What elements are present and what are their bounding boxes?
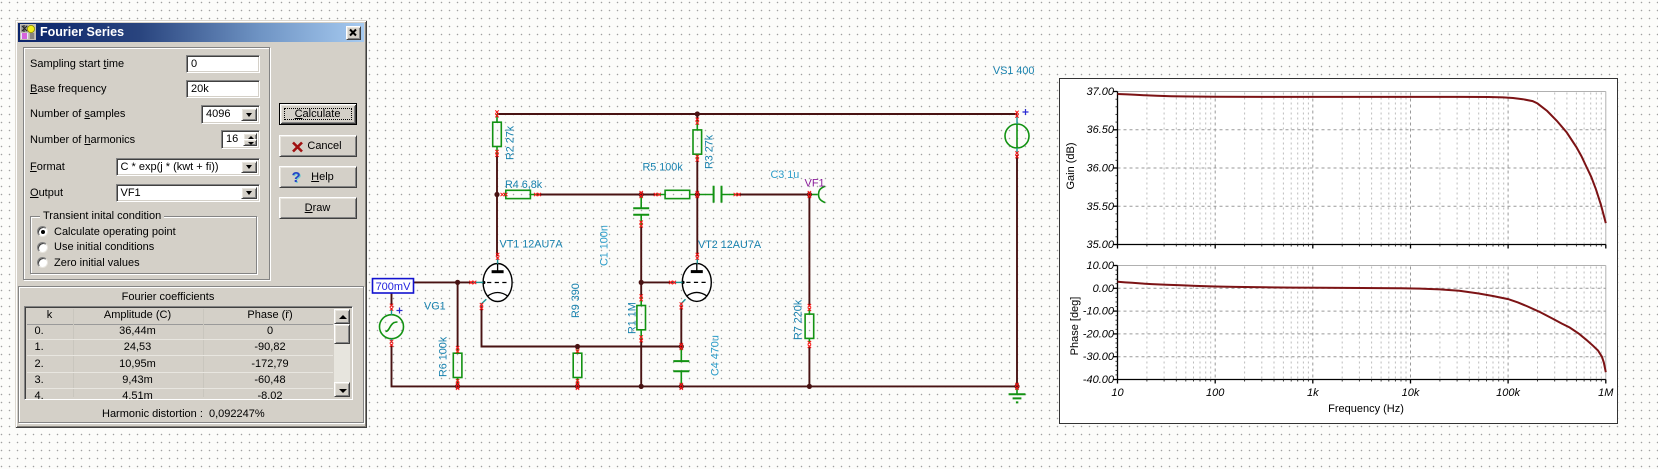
gain plot grid (1114, 92, 1606, 249)
svg-text:10: 10 (1111, 387, 1124, 399)
resistor R1 1M (627, 294, 646, 342)
svg-text:37.00: 37.00 (1086, 86, 1114, 98)
node D junction (VG1/R6/VT1 grid) (455, 280, 460, 285)
wire VT2 anode to node C (696, 195, 698, 257)
resistor R6 100k (438, 336, 462, 386)
wire node VF1 through R7 to rail (808, 195, 810, 387)
svg-text:R2 27k: R2 27k (505, 125, 517, 160)
svg-text:100: 100 (1206, 387, 1225, 399)
vacuum tube VT1 12AU7A (469, 239, 563, 311)
svg-text:R3 27k: R3 27k (704, 134, 716, 169)
wire node B to R5 (641, 194, 657, 196)
voltage generator VG1 (380, 301, 446, 347)
svg-text:VT2 12AU7A: VT2 12AU7A (698, 239, 762, 251)
svg-text:1M: 1M (1598, 387, 1614, 399)
svg-text:R1 1M: R1 1M (627, 302, 639, 334)
wire node A to VT1 anode (496, 195, 498, 257)
gain curve (1118, 94, 1606, 223)
x axis labels (1111, 387, 1614, 415)
wire VS1 bottom to ground (1016, 155, 1018, 386)
svg-text:35.00: 35.00 (1086, 239, 1114, 251)
capacitor C1 100n (599, 195, 650, 267)
wire VG1 to VT1 grid (392, 282, 473, 306)
capacitor C4 470u (673, 335, 721, 386)
wire R4 to node B (538, 194, 642, 196)
resistor R2 27k (493, 110, 517, 160)
svg-text:R9 390: R9 390 (570, 283, 582, 318)
wire node F to VT2 grid (641, 281, 672, 283)
svg-text:1k: 1k (1307, 387, 1319, 399)
svg-text:R7 220k: R7 220k (793, 299, 805, 340)
capacitor C3 1u (697, 169, 799, 203)
svg-text:R4 6,8k: R4 6,8k (505, 179, 543, 191)
svg-text:-10.00: -10.00 (1083, 306, 1115, 318)
wire VT2 cathode to node G (680, 306, 682, 347)
svg-text:700mV: 700mV (376, 281, 412, 293)
input label 700mV (373, 279, 414, 293)
svg-text:VT1 12AU7A: VT1 12AU7A (500, 239, 564, 251)
wire C1 to node F (640, 227, 642, 282)
node F junction (C1/R1/VT2 grid) (639, 280, 644, 285)
svg-text:36.50: 36.50 (1086, 124, 1114, 136)
svg-text:R6 100k: R6 100k (438, 336, 450, 377)
svg-text:VG1: VG1 (424, 301, 446, 313)
node C junction (R3/VT2/C3) (695, 191, 700, 198)
phase labels (1069, 260, 1115, 386)
wire node D down to R6 (457, 282, 459, 349)
rail junction R7 (807, 384, 812, 389)
svg-text:C3 1u: C3 1u (771, 169, 800, 181)
wire C3 to node VF1 (737, 194, 809, 196)
resistor R5 100k (643, 162, 698, 199)
phase curve (1118, 282, 1606, 372)
svg-text:36.00: 36.00 (1086, 163, 1114, 175)
diagram panel (1060, 79, 1618, 424)
node G junction (VT2 cathode/C4) (679, 343, 684, 350)
svg-text:100k: 100k (1496, 387, 1520, 399)
wire node F through R1 to rail (640, 282, 642, 386)
node E junction (R9 top) (575, 344, 580, 349)
svg-text:C4 470u: C4 470u (710, 335, 722, 376)
rail junction R6 (455, 383, 460, 390)
rail junction R1 (639, 384, 644, 389)
rail junction C4 (679, 383, 684, 390)
resistor R4 6,8k (501, 179, 543, 199)
svg-text:C1 100n: C1 100n (599, 225, 611, 266)
rail junction R9 (575, 383, 580, 390)
wire VT1 cathode to node E (482, 307, 682, 347)
svg-text:Gain (dB): Gain (dB) (1065, 142, 1077, 189)
resistor R9 390 (570, 283, 582, 386)
vacuum tube VT2 12AU7A (669, 239, 762, 309)
svg-text:VF1: VF1 (805, 178, 825, 190)
node A junction (494, 192, 499, 197)
svg-text:10k: 10k (1402, 387, 1420, 399)
svg-text:VS1 400: VS1 400 (993, 65, 1034, 77)
gain labels (1065, 86, 1115, 251)
node B junction (C1 top) (639, 191, 644, 198)
resistor R7 220k (793, 299, 814, 348)
svg-text:Phase [deg]: Phase [deg] (1069, 297, 1081, 356)
svg-text:0.00: 0.00 (1093, 283, 1115, 295)
svg-text:-30.00: -30.00 (1083, 351, 1115, 363)
svg-text:-20.00: -20.00 (1083, 328, 1115, 340)
wire R3 top (696, 114, 698, 195)
ground symbol (1009, 386, 1026, 402)
node top rail junction above R3 (695, 111, 700, 116)
svg-text:35.50: 35.50 (1086, 201, 1114, 213)
svg-text:R5 100k: R5 100k (643, 162, 684, 174)
resistor R3 27k (693, 118, 716, 169)
svg-text:Frequency (Hz): Frequency (Hz) (1328, 403, 1404, 415)
phase plot grid (1114, 266, 1606, 384)
output probe VF1 (805, 178, 826, 203)
wire bottom ground rail (392, 344, 1018, 386)
ground junction (1014, 383, 1019, 390)
node VF1 junction (807, 191, 812, 198)
wire R2 to node A (496, 154, 498, 195)
svg-text:10.00: 10.00 (1086, 260, 1114, 272)
wire R6 bottom (457, 383, 459, 387)
svg-text:-40.00: -40.00 (1083, 374, 1115, 386)
wire R9 bottom (577, 383, 579, 387)
wire top supply rail (497, 113, 1017, 115)
voltage source VS1 400 (993, 65, 1034, 158)
